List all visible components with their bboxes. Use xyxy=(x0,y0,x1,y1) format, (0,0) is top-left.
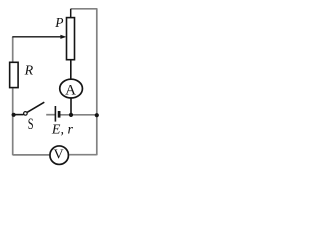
svg-text:S: S xyxy=(28,116,34,133)
svg-text:A: A xyxy=(65,83,76,99)
svg-text:R: R xyxy=(24,64,34,79)
svg-text:V: V xyxy=(53,148,63,163)
svg-text:E, r: E, r xyxy=(51,122,74,137)
svg-text:P: P xyxy=(54,15,63,30)
